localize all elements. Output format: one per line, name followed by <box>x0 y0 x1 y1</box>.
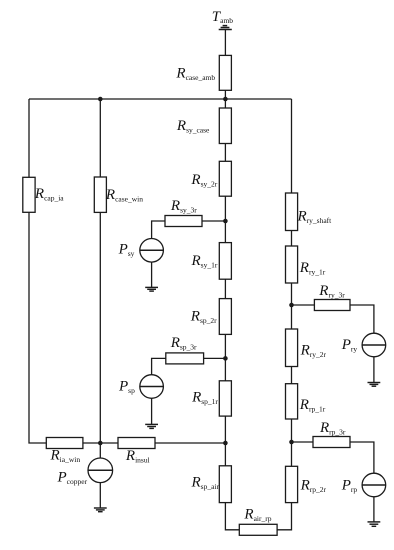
wire: winding column from R_case_win down to P_copper <box>99 212 101 458</box>
wire: R_ia_win to R_insul <box>83 442 118 444</box>
heat source P_sy <box>140 239 164 263</box>
svg-text:Pcopper: Pcopper <box>57 470 88 486</box>
resistor R_sp_air <box>219 466 231 503</box>
wire: node to R_ry_3r <box>292 304 315 306</box>
svg-text:Psp: Psp <box>118 379 135 395</box>
ground under P_ry <box>368 383 381 387</box>
resistor R_ia_win <box>46 438 83 449</box>
wire: R_sp_1r to R_sp_air through bottom node <box>224 416 226 466</box>
svg-text:Rry_3r: Rry_3r <box>318 283 345 299</box>
resistor R_ry_1r <box>286 246 298 283</box>
resistor R_sy_2r <box>219 161 231 196</box>
wire: R_ry_2r to R_rp_1r <box>291 367 293 384</box>
wire: R_sy_2r to R_sy_1r through node <box>224 196 226 242</box>
wire: node to R_sy_3r <box>202 220 225 222</box>
svg-text:Rrp_2r: Rrp_2r <box>300 478 327 494</box>
heat source P_sp <box>140 375 164 399</box>
heat source P_copper <box>88 458 113 483</box>
svg-text:Rsp_3r: Rsp_3r <box>170 335 197 351</box>
wire: P_sp to ground <box>151 398 153 424</box>
svg-text:Rsp_1r: Rsp_1r <box>191 390 218 406</box>
wire: left column upper segment <box>28 99 30 177</box>
wire: P_sy to ground <box>151 262 153 287</box>
svg-text:Rsp_air: Rsp_air <box>191 475 220 491</box>
resistor R_ry_shaft <box>286 193 298 231</box>
svg-text:Rsp_2r: Rsp_2r <box>190 309 217 325</box>
svg-text:Rsy_case: Rsy_case <box>176 118 210 134</box>
wire: R_sy_case to R_sy_2r <box>224 144 226 162</box>
node: bus / case column junction <box>223 97 228 102</box>
wire: R_air_rp to right column <box>277 503 291 530</box>
resistor R_case_amb <box>219 55 231 90</box>
resistor R_sy_1r <box>219 243 231 280</box>
wire: node to R_rp_3r <box>292 441 314 443</box>
wire: P_rp to ground <box>373 497 375 522</box>
svg-text:Tamb: Tamb <box>212 9 234 25</box>
resistor R_sy_3r <box>165 216 202 227</box>
resistor R_sp_1r <box>219 381 231 416</box>
resistor R_sp_3r <box>166 353 204 364</box>
wire: R_sp_2r to R_sp_1r through node <box>224 334 226 380</box>
resistor R_rp_3r <box>313 437 350 448</box>
svg-text:Rsy_2r: Rsy_2r <box>190 172 217 188</box>
wire: T_amb to R_case_amb <box>224 30 226 56</box>
wire: R_ry_shaft to R_ry_1r <box>291 231 293 247</box>
svg-text:Rair_rp: Rair_rp <box>243 507 271 523</box>
wire: R_ry_3r to P_ry <box>350 305 374 333</box>
svg-text:Rry_1r: Rry_1r <box>299 260 326 276</box>
svg-text:Pry: Pry <box>341 337 358 353</box>
ground under P_copper <box>94 508 107 512</box>
resistor R_ry_3r <box>314 300 350 311</box>
resistor R_rp_1r <box>286 384 298 419</box>
svg-text:Rsy_3r: Rsy_3r <box>170 198 197 214</box>
ground under P_sy <box>145 287 158 291</box>
wire: R_rp_3r to P_rp <box>350 442 374 473</box>
wire: R_sp_air down to R_air_rp <box>225 503 239 530</box>
node: R_rp_3r junction <box>289 440 294 445</box>
wire: P_copper to ground <box>99 483 101 508</box>
wire: left column lower segment to R_ia_win <box>29 212 46 443</box>
resistor R_rp_2r <box>286 466 298 502</box>
ground under P_rp <box>368 522 381 526</box>
node: R_sp_3r junction <box>223 356 228 361</box>
wire: right column from bus to R_ry_shaft <box>291 99 293 193</box>
resistor R_air_rp <box>239 524 277 535</box>
svg-text:Rcase_win: Rcase_win <box>105 187 143 203</box>
wire: R_insul to centre column node <box>155 442 225 444</box>
wire: R_ry_1r to R_ry_2r through node <box>291 283 293 329</box>
node: R_sy_3r junction <box>223 219 228 224</box>
resistor R_case_win <box>94 177 106 212</box>
wire: winding column from bus to R_case_win <box>99 99 101 177</box>
svg-text:Rsy_1r: Rsy_1r <box>191 253 218 269</box>
svg-text:Rcase_amb: Rcase_amb <box>175 66 215 82</box>
wire: R_case_amb to top bus <box>224 90 226 99</box>
node: R_ry_3r junction <box>289 303 294 308</box>
svg-text:Ria_win: Ria_win <box>50 448 81 464</box>
node: bottom winding junction <box>98 441 103 446</box>
wire: centre column bus to R_sy_case <box>224 99 226 108</box>
resistor R_cap_ia <box>23 177 35 212</box>
svg-text:Rcap_ia: Rcap_ia <box>34 186 64 202</box>
resistor R_sy_case <box>219 108 231 144</box>
heat source P_ry <box>362 333 386 357</box>
svg-text:Rinsul: Rinsul <box>125 448 150 464</box>
svg-text:Rrp_3r: Rrp_3r <box>319 420 346 436</box>
wire: node to R_sp_3r <box>204 357 226 359</box>
wire: R_sp_3r to P_sp <box>152 358 166 374</box>
node: bus / winding column junction <box>98 97 103 102</box>
heat source P_rp <box>362 473 386 497</box>
ground under P_sp <box>145 424 158 428</box>
wire: R_sy_1r to R_sp_2r <box>224 279 226 298</box>
svg-text:Rrp_1r: Rrp_1r <box>299 397 326 413</box>
svg-text:Rry_2r: Rry_2r <box>300 343 327 359</box>
wire: P_ry to ground <box>373 357 375 383</box>
resistor R_sp_2r <box>219 299 231 335</box>
resistor R_insul <box>118 438 155 449</box>
ambient source T_amb (flipped ground symbol) <box>219 26 232 30</box>
node: bottom centre junction <box>223 441 228 446</box>
svg-text:Psy: Psy <box>118 242 135 258</box>
wire: top horizontal bus <box>29 98 292 100</box>
wire: R_rp_1r to R_rp_2r through node <box>291 419 293 466</box>
wire: R_sy_3r to P_sy <box>152 221 165 239</box>
svg-text:Prp: Prp <box>341 478 358 494</box>
resistor R_ry_2r <box>286 329 298 367</box>
svg-text:Rry_shaft: Rry_shaft <box>297 209 333 225</box>
